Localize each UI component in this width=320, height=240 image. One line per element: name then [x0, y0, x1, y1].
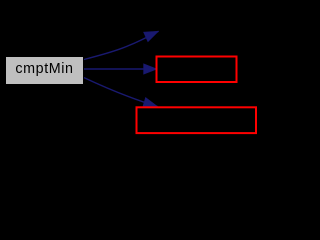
svg-text:cmptMin: cmptMin [15, 61, 73, 77]
edge cmptMin to middle node [84, 64, 157, 74]
edge cmptMin to top node [84, 31, 159, 59]
edge cmptMin to bottom node [84, 78, 158, 108]
node middle (red outlined box) [157, 57, 237, 83]
node cmptMin (grey filled box) [6, 57, 83, 84]
node bottom (red outlined box) [137, 107, 257, 133]
